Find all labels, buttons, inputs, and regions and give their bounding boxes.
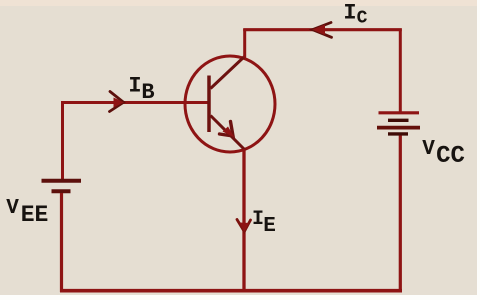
wire: right vertical from VCC battery down to bottom wire <box>399 136 402 293</box>
wire: left vertical from VEE battery down to bottom wire <box>60 193 63 292</box>
label IB <box>128 74 154 106</box>
arrow IE on emitter wire <box>237 220 251 233</box>
wire: right vertical from top wire down to VCC battery <box>399 29 402 113</box>
battery VCC plate 3 long <box>377 126 420 130</box>
wire: top horizontal wire to VCC <box>243 28 402 31</box>
svg-text:I: I <box>128 74 141 99</box>
arrow IC on top wire <box>312 23 332 38</box>
battery VCC plate 2 short <box>388 119 409 122</box>
transistor Q1 emitter stroke with arrow <box>211 116 246 151</box>
battery VCC plate 1 long <box>379 111 420 114</box>
svg-text:E: E <box>263 215 276 238</box>
label VEE <box>6 197 48 228</box>
svg-text:C: C <box>357 9 368 29</box>
wire: emitter vertical down from transistor to bottom wire <box>242 149 245 292</box>
label IC <box>343 1 367 29</box>
svg-text:I: I <box>343 1 356 26</box>
svg-text:EE: EE <box>21 202 49 228</box>
wire: bottom horizontal wire <box>60 289 402 293</box>
svg-text:V: V <box>6 197 19 220</box>
transistor Q1 collector stroke <box>211 57 245 89</box>
arrow IB on base wire <box>110 92 125 112</box>
svg-text:CC: CC <box>436 143 465 170</box>
battery VEE short plate (-) <box>52 189 71 193</box>
transistor Q1 base bar <box>207 76 211 133</box>
transistor Q1 circle <box>185 56 275 152</box>
label VCC <box>422 138 465 170</box>
svg-text:B: B <box>141 80 154 105</box>
wire: left vertical from base wire down to VEE battery <box>61 101 64 180</box>
label IE <box>252 208 276 238</box>
wire: base wire from left branch to transistor base bar <box>61 101 210 104</box>
battery VCC plate 4 short <box>388 132 408 135</box>
svg-text:V: V <box>422 138 435 161</box>
wire: collector vertical up from transistor <box>243 29 246 58</box>
battery VEE long plate (+) <box>42 179 82 183</box>
